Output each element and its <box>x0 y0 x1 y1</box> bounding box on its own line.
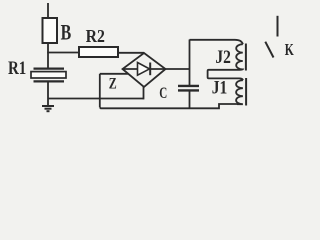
bridge rectifier diamond <box>123 53 166 87</box>
diode D cathode bar <box>149 63 151 76</box>
switch K blade <box>265 42 273 58</box>
relay coil J1 <box>236 80 243 104</box>
switch K fixed contact <box>277 16 279 37</box>
wire: ground rail <box>48 98 144 100</box>
diode D triangle <box>138 63 150 76</box>
svg-text:B: B <box>61 19 72 44</box>
wire: cap rail lower <box>189 90 191 108</box>
svg-text:J2: J2 <box>215 47 231 68</box>
wire: J2 to J1 connector <box>208 70 243 80</box>
svg-text:R2: R2 <box>86 26 105 46</box>
wire: lower rail <box>100 104 237 108</box>
wire: J1 bottom to lower rail <box>237 103 240 105</box>
resistor R2 <box>79 47 118 57</box>
wire: R2 to bridge top vertex <box>118 52 144 54</box>
wire: B bottom to crystal <box>47 43 49 69</box>
wire: bridge bottom stub <box>143 87 145 99</box>
wire: bridge output to cap rail <box>166 68 190 70</box>
svg-text:Z: Z <box>109 76 117 93</box>
crystal R1 top plate <box>34 67 65 69</box>
box Z left edge <box>99 74 101 108</box>
relay coil J2 <box>236 44 243 70</box>
svg-text:J1: J1 <box>212 78 228 99</box>
svg-text:C: C <box>159 85 167 102</box>
resistor B <box>43 18 58 43</box>
diode D line <box>123 68 166 70</box>
iron core J2 <box>245 44 247 71</box>
svg-text:K: K <box>285 40 295 59</box>
wire: top lead of B <box>47 3 49 18</box>
capacitor C bottom plate <box>178 89 199 91</box>
iron core J1 <box>245 78 247 106</box>
capacitor C top plate <box>178 85 199 87</box>
crystal R1 bottom plate <box>34 80 65 82</box>
ground <box>42 106 54 111</box>
box Z top edge <box>100 73 128 75</box>
wire: junction to R2 <box>47 52 79 54</box>
wire: crystal to ground rail <box>47 81 49 99</box>
wire: top rail to J2 <box>190 40 243 44</box>
svg-text:R1: R1 <box>8 58 26 79</box>
wire: cap rail upper <box>189 40 191 86</box>
crystal R1 body <box>31 72 66 78</box>
wire: ground stub <box>47 99 49 106</box>
